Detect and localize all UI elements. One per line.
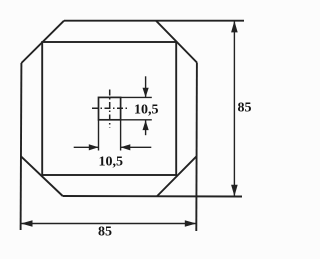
dimension 10,5 vertical lower arrow line (145, 120, 147, 135)
svg-text:85: 85 (98, 225, 112, 240)
extension line hole bottom edge right (121, 119, 152, 121)
extension line hole top edge right (121, 96, 152, 98)
chamfer bottom-right (157, 156, 196, 196)
chamfer top-right (156, 21, 197, 63)
outer plate top edge with right extension line (64, 20, 244, 22)
dimension 10,5 horizontal left arrow line (74, 146, 99, 148)
arrowhead 85 right dim up (231, 21, 238, 33)
inner face square (42, 42, 176, 175)
extension line hole right edge down (120, 120, 122, 151)
arrowhead 85 bottom dim right (185, 220, 197, 227)
center hole square (99, 97, 121, 119)
svg-text:85: 85 (238, 101, 252, 116)
extension line hole left edge down (98, 120, 100, 151)
dimension 10,5 horizontal right arrow line (121, 146, 152, 148)
dimension 85 right line (233, 21, 235, 196)
svg-text:10,5: 10,5 (134, 103, 159, 118)
arrowhead 10,5 vertical down at hole top (143, 88, 149, 98)
centerline vertical dash-dot (109, 90, 111, 128)
arrowhead 85 right dim down (231, 185, 238, 197)
outer plate left edge with lower extension line (20, 63, 23, 230)
dimension 10,5 vertical upper arrow line (145, 76, 147, 97)
dimension 85 bottom line (21, 223, 196, 225)
chamfer bottom-left (21, 156, 63, 196)
arrowhead 10,5 vertical up at hole bottom (143, 120, 149, 130)
arrowhead 85 bottom dim left (21, 220, 33, 227)
outer plate right edge with lower extension line (195, 63, 198, 232)
centerline horizontal dash-dot (92, 107, 129, 109)
outer plate bottom edge with right extension line (63, 195, 242, 198)
svg-text:10,5: 10,5 (99, 155, 124, 170)
arrowhead 10,5 horizontal left at hole right (121, 144, 131, 150)
arrowhead 10,5 horizontal right at hole left (89, 144, 99, 150)
chamfer top-left (21, 21, 64, 63)
